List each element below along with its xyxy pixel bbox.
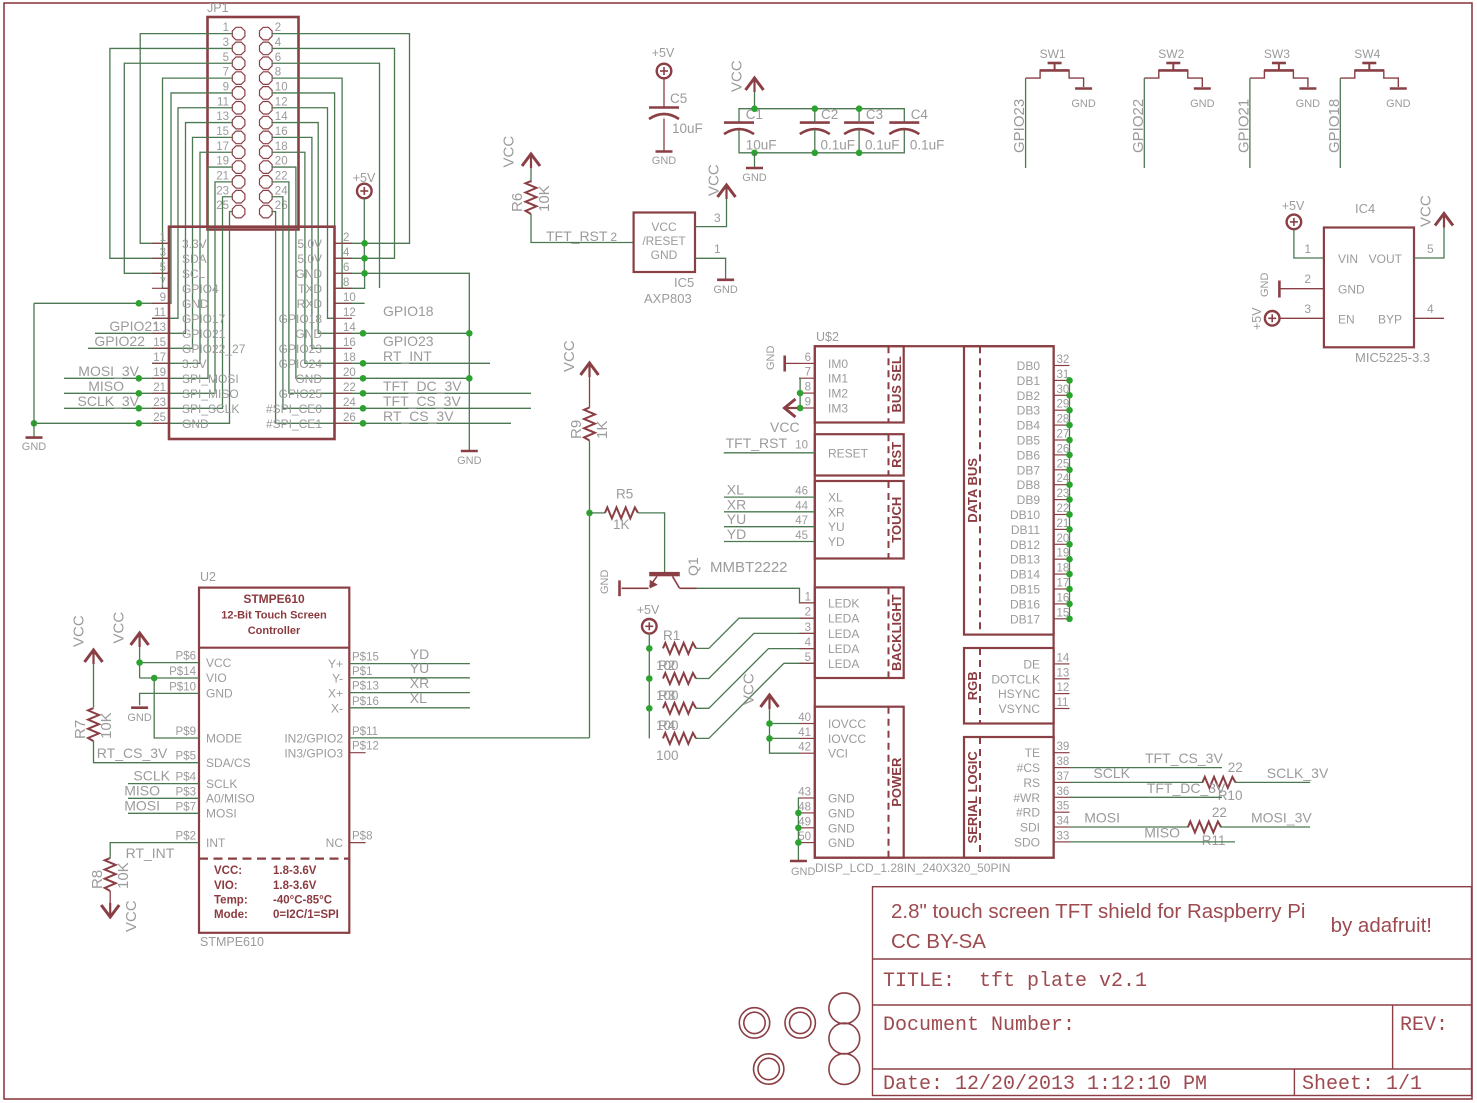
svg-text:MOSI: MOSI — [206, 807, 237, 821]
wire R9 to node and STMPE P$11 — [589, 441, 591, 738]
svg-text:IN3/GPIO3: IN3/GPIO3 — [284, 747, 343, 761]
fiducial F1 — [829, 993, 860, 1024]
svg-text:44: 44 — [795, 500, 808, 512]
svg-text:12: 12 — [1057, 682, 1070, 694]
svg-text:SW4: SW4 — [1354, 47, 1380, 61]
svg-text:1.8-3.6V: 1.8-3.6V — [273, 880, 317, 892]
wire TFT_CS_3V at pin38 — [1070, 767, 1223, 769]
svg-text:U2: U2 — [200, 570, 216, 584]
svg-text:R6: R6 — [509, 193, 526, 212]
svg-text:GND: GND — [651, 248, 678, 262]
svg-text:3.3V: 3.3V — [182, 357, 207, 371]
svg-text:MODE: MODE — [206, 732, 242, 746]
svg-text:CC BY-SA: CC BY-SA — [891, 930, 986, 953]
svg-text:2: 2 — [805, 607, 811, 619]
U$2 DATA_BUS block — [964, 346, 1054, 634]
svg-text:GPIO23: GPIO23 — [279, 342, 323, 356]
svg-text:SPI_MISO: SPI_MISO — [182, 387, 239, 401]
svg-text:20: 20 — [343, 367, 356, 379]
svg-text:4: 4 — [1427, 302, 1434, 316]
power +5V symbol at JP1 — [357, 184, 372, 199]
svg-text:P$14: P$14 — [169, 666, 196, 678]
svg-text:DB1: DB1 — [1017, 374, 1041, 388]
svg-text:IOVCC: IOVCC — [828, 732, 866, 746]
svg-text:5: 5 — [223, 52, 229, 64]
svg-text:STMPE610: STMPE610 — [200, 935, 264, 949]
capacitor C5 — [649, 106, 679, 109]
svg-text:MOSI: MOSI — [124, 797, 160, 813]
svg-text:VCC: VCC — [1418, 195, 1435, 227]
svg-text:1K: 1K — [613, 517, 630, 532]
svg-text:IM2: IM2 — [828, 387, 848, 401]
svg-text:SCLK: SCLK — [133, 768, 170, 784]
svg-text:LEDA: LEDA — [828, 642, 859, 656]
wire GND left vertical — [33, 303, 35, 437]
svg-text:#CS: #CS — [1017, 761, 1040, 775]
ground symbol at IC4 pin2 — [1278, 281, 1281, 298]
svg-text:VCC: VCC — [729, 60, 746, 92]
resistor R4 100 — [663, 733, 696, 744]
svg-text:RST: RST — [889, 442, 904, 468]
power VCC left arrow at IM pins — [784, 399, 798, 417]
wire JP1 pin 6 — [272, 63, 380, 288]
svg-text:DB10: DB10 — [1010, 508, 1040, 522]
svg-text:MOSI_3V: MOSI_3V — [78, 363, 139, 379]
svg-text:10K: 10K — [98, 712, 115, 739]
wire display GND pins — [797, 798, 800, 861]
svg-text:RESET: RESET — [828, 447, 869, 461]
wire C5 to GND — [663, 119, 665, 152]
svg-text:C3: C3 — [866, 107, 883, 122]
svg-text:IN2/GPIO2: IN2/GPIO2 — [284, 732, 343, 746]
svg-text:VCC: VCC — [740, 673, 757, 705]
wire GND to IM0 — [785, 362, 799, 364]
svg-text:#RD: #RD — [1016, 806, 1040, 820]
svg-text:YU: YU — [727, 511, 746, 527]
svg-text:VIO:: VIO: — [214, 880, 238, 892]
svg-text:Y+: Y+ — [328, 657, 343, 671]
svg-text:GPIO17: GPIO17 — [182, 312, 226, 326]
svg-text:DB8: DB8 — [1017, 478, 1041, 492]
wire JP1 pin 19 — [64, 167, 232, 378]
wire IC4 pin5 VOUT to VCC — [1414, 226, 1444, 258]
U$2 IM pin stubs and numbers — [799, 363, 815, 408]
svg-text:VCC: VCC — [206, 656, 232, 670]
wire +5V to pins 2 and 4 — [363, 198, 365, 273]
svg-text:VCC: VCC — [123, 900, 140, 932]
wire GPIO21 at SW3 — [1249, 78, 1251, 168]
power VCC down arrow below R8 — [101, 903, 119, 918]
svg-text:26: 26 — [275, 200, 288, 212]
svg-text:22: 22 — [1228, 760, 1243, 775]
svg-text:5.0V: 5.0V — [297, 252, 322, 266]
svg-text:VCC:: VCC: — [214, 865, 242, 877]
svg-text:VCC: VCC — [706, 164, 723, 196]
svg-text:GND: GND — [1190, 98, 1215, 110]
svg-text:-40°C-85°C: -40°C-85°C — [273, 895, 332, 907]
svg-text:DISP_LCD_1.28IN_240X320_50PIN: DISP_LCD_1.28IN_240X320_50PIN — [815, 861, 1010, 875]
svg-text:10K: 10K — [115, 862, 132, 889]
resistor R11 22 — [1188, 822, 1221, 833]
svg-text:19: 19 — [216, 156, 229, 168]
U2 P$12 stub — [349, 752, 365, 754]
svg-text:GND: GND — [206, 687, 233, 701]
svg-text:GND: GND — [599, 570, 611, 595]
svg-text:3: 3 — [223, 37, 229, 49]
svg-text:MIC5225-3.3: MIC5225-3.3 — [1355, 350, 1430, 365]
svg-text:GND: GND — [828, 836, 855, 850]
IC U2 STMPE610 box — [199, 588, 349, 933]
wire XL net at display — [724, 496, 815, 498]
svg-text:100: 100 — [656, 718, 679, 733]
svg-text:GPIO4: GPIO4 — [182, 282, 219, 296]
junction dot IM3 — [797, 405, 804, 412]
svg-text:IC5: IC5 — [674, 275, 694, 290]
svg-text:43: 43 — [798, 787, 811, 799]
svg-text:DB16: DB16 — [1010, 597, 1040, 611]
power VCC arrow at IC5 pin3 — [718, 184, 736, 199]
svg-text:GND: GND — [457, 455, 482, 467]
wire R2 to LEDA pin3 — [696, 633, 815, 678]
svg-text:10uF: 10uF — [746, 138, 777, 153]
svg-text:P$8: P$8 — [352, 831, 372, 843]
resistor R3 100 — [663, 703, 696, 714]
switch SW4 — [1340, 63, 1398, 87]
svg-text:GND: GND — [828, 806, 855, 820]
svg-text:GPIO23: GPIO23 — [383, 333, 434, 349]
wire R6 to IC5 pin2 TFT_RST — [531, 214, 634, 243]
svg-text:RT_INT: RT_INT — [126, 845, 175, 861]
wire P$10 to GND — [140, 693, 199, 705]
wire R10 to SCLK_3V — [1235, 781, 1310, 783]
svg-text:DOTCLK: DOTCLK — [991, 672, 1040, 686]
wire IC5 pin1 to GND — [695, 258, 726, 279]
wire +5V to IC4 pin1 — [1294, 229, 1324, 258]
svg-text:GND: GND — [765, 346, 777, 371]
svg-text:9: 9 — [223, 82, 229, 94]
ground symbol at Q1 emitter — [618, 580, 621, 596]
svg-text:22: 22 — [343, 382, 356, 394]
wire GPIO18 at SW4 — [1339, 78, 1341, 168]
svg-text:2: 2 — [1304, 272, 1311, 286]
svg-text:#SPI_CE1: #SPI_CE1 — [266, 417, 322, 431]
ground symbol at SW2 — [1194, 87, 1211, 90]
svg-text:DB14: DB14 — [1010, 568, 1040, 582]
svg-text:VCC: VCC — [501, 136, 518, 168]
svg-text:1: 1 — [160, 232, 166, 244]
junction dots data bus — [1066, 377, 1073, 384]
wire row8 stub net — [335, 273, 365, 288]
IC IC4 MIC5225-3.3 box — [1324, 228, 1414, 348]
wire YU net at display — [724, 526, 815, 528]
svg-text:Q1: Q1 — [685, 557, 701, 576]
wire capacitor top rail — [739, 109, 904, 123]
svg-text:19: 19 — [153, 367, 166, 379]
wire MISO net — [128, 797, 199, 799]
wire VCC to R6 — [530, 168, 532, 183]
svg-text:A0/MISO: A0/MISO — [206, 792, 255, 806]
svg-text:DB5: DB5 — [1017, 434, 1041, 448]
resistor R5 1K — [605, 507, 638, 518]
svg-text:26: 26 — [343, 412, 356, 424]
svg-text:13: 13 — [1057, 667, 1070, 679]
svg-text:GPIO22: GPIO22 — [1130, 99, 1147, 153]
svg-text:0.1uF: 0.1uF — [865, 138, 900, 153]
svg-text:SDI: SDI — [1020, 821, 1040, 835]
svg-text:GND: GND — [652, 155, 677, 167]
wire JP1 pin 15 — [88, 137, 232, 348]
wire R3 to LEDA pin4 — [696, 649, 815, 709]
svg-text:GPIO22_27: GPIO22_27 — [182, 342, 246, 356]
svg-text:3: 3 — [714, 211, 721, 225]
svg-text:P$4: P$4 — [176, 772, 197, 784]
svg-text:GND: GND — [295, 267, 322, 281]
wire VCC to IOVCC pins — [770, 709, 800, 753]
connector JP1 upper box — [208, 17, 299, 230]
wire IM1 IM2 IM3 tie — [797, 378, 800, 408]
svg-text:DB12: DB12 — [1010, 538, 1040, 552]
JP1 lower box pin stubs — [152, 243, 352, 423]
svg-text:42: 42 — [798, 742, 811, 754]
svg-text:R11: R11 — [1202, 833, 1226, 848]
wire VCC to R9 — [589, 377, 591, 408]
wire R8 to VCC down arrow — [109, 891, 111, 903]
ground symbol below IC5 — [717, 278, 734, 281]
U$2 data bus pins DB0-DB17 — [1054, 366, 1070, 619]
svg-text:GND: GND — [22, 441, 47, 453]
wire XR net at U2 — [349, 692, 470, 694]
ground symbol below display — [790, 860, 807, 863]
svg-text:22: 22 — [1212, 805, 1227, 820]
svg-text:GND: GND — [1259, 273, 1271, 298]
svg-text:DB13: DB13 — [1010, 553, 1040, 567]
svg-text:P$12: P$12 — [352, 741, 379, 753]
svg-text:GND: GND — [791, 866, 816, 878]
wire JP1 pin 16 — [272, 137, 335, 348]
svg-text:VIN: VIN — [1338, 252, 1358, 266]
svg-text:DB15: DB15 — [1010, 583, 1040, 597]
svg-text:X-: X- — [331, 702, 343, 716]
wire YD net at U2 — [349, 663, 470, 665]
svg-text:3: 3 — [805, 622, 811, 634]
svg-text:0.1uF: 0.1uF — [910, 138, 945, 153]
svg-text:DB17: DB17 — [1010, 612, 1040, 626]
power VCC arrow at IOVCC — [761, 694, 779, 709]
svg-text:HSYNC: HSYNC — [998, 687, 1040, 701]
svg-text:#SPI_CE0: #SPI_CE0 — [266, 402, 322, 416]
svg-text:LEDA: LEDA — [828, 657, 859, 671]
ground symbol right of JP1 — [461, 450, 478, 453]
svg-text:VCI: VCI — [828, 747, 848, 761]
svg-text:14: 14 — [1057, 652, 1070, 664]
junction dot R5 node — [586, 510, 593, 517]
svg-text:22: 22 — [275, 171, 288, 183]
wire JP1 pin 17 — [152, 152, 232, 363]
svg-text:LEDA: LEDA — [828, 627, 859, 641]
svg-text:P$5: P$5 — [176, 751, 196, 763]
svg-text:GND: GND — [828, 821, 855, 835]
svg-text:DE: DE — [1023, 657, 1040, 671]
connector JP1 pin octagons and numbers — [216, 22, 288, 218]
wire JP1 pin 25 — [34, 212, 232, 424]
svg-text:1.8-3.6V: 1.8-3.6V — [273, 865, 317, 877]
junction dot P$6 — [136, 659, 143, 666]
U$2 BACKLIGHT block — [815, 587, 904, 678]
U$2 TOUCH block — [815, 481, 904, 559]
svg-text:+5V: +5V — [1250, 307, 1264, 330]
transistor Q1 MMBT2222 — [622, 572, 697, 589]
svg-text:46: 46 — [795, 486, 808, 498]
svg-text:10K: 10K — [536, 185, 553, 212]
svg-text:40: 40 — [798, 712, 811, 724]
wire IC4 pin4 BYP — [1414, 317, 1444, 319]
wire JP1 pin 3 — [110, 48, 232, 258]
svg-text:11: 11 — [1057, 697, 1069, 709]
power VCC arrow at IC4 VOUT — [1435, 213, 1453, 228]
svg-text:DB4: DB4 — [1017, 419, 1041, 433]
svg-text:GND: GND — [1338, 283, 1365, 297]
svg-text:2.8" touch screen TFT shield f: 2.8" touch screen TFT shield for Raspber… — [891, 900, 1305, 923]
svg-text:STMPE610: STMPE610 — [243, 592, 305, 606]
svg-text:47: 47 — [795, 515, 808, 527]
svg-text:15: 15 — [216, 126, 229, 138]
svg-text:11: 11 — [217, 96, 229, 108]
svg-text:P$9: P$9 — [176, 726, 196, 738]
svg-text:12: 12 — [343, 307, 356, 319]
IC U$2 display outer box — [815, 346, 1054, 858]
svg-text:GPIO18: GPIO18 — [383, 303, 434, 319]
svg-text:GND: GND — [182, 417, 209, 431]
power +5V symbol at IC4 VIN — [1287, 215, 1302, 230]
wire +5V to C5 — [663, 78, 665, 107]
wire JP1 pin 21 — [64, 182, 232, 393]
ground symbol at IM0 — [783, 356, 786, 372]
wire JP1 pin 23 — [64, 197, 232, 409]
U$2 POWER block — [815, 707, 904, 858]
svg-text:10: 10 — [275, 82, 288, 94]
svg-text:RS: RS — [1023, 776, 1040, 790]
svg-text:TFT_RST: TFT_RST — [546, 228, 608, 244]
ground symbol below C1 — [746, 167, 763, 170]
JP1 lower box pin names — [182, 237, 322, 431]
svg-text:R9: R9 — [568, 420, 585, 439]
svg-text:DB11: DB11 — [1011, 523, 1040, 537]
wire JP1 pin 7 — [163, 78, 233, 288]
svg-text:37: 37 — [1057, 771, 1070, 783]
svg-text:by adafruit!: by adafruit! — [1331, 914, 1432, 937]
resistor R2 100 — [663, 673, 696, 684]
svg-text:GPIO18: GPIO18 — [1326, 99, 1343, 153]
wire VCC to P$6 and P$14 and P$9 — [139, 647, 141, 678]
svg-text:7: 7 — [160, 277, 166, 289]
svg-text:TXD: TXD — [298, 282, 322, 296]
svg-text:20: 20 — [275, 156, 288, 168]
svg-text:RGB: RGB — [965, 671, 980, 700]
wire P$2 INT to R8 — [110, 843, 199, 858]
mounting hole H1 — [739, 1008, 769, 1038]
svg-text:TOUCH: TOUCH — [889, 497, 904, 543]
wire MISO at pin33 — [1070, 841, 1236, 843]
svg-text:12: 12 — [275, 96, 288, 108]
wire JP1 pin 9 — [34, 93, 232, 303]
wire +5V rail down R1-R4 — [648, 634, 650, 739]
svg-text:SPI_MOSI: SPI_MOSI — [182, 372, 239, 386]
svg-text:25: 25 — [153, 412, 166, 424]
wire GPIO23 at SW1 — [1025, 78, 1027, 168]
capacitor C2 — [800, 121, 830, 124]
wire IC5 pin3 to VCC — [695, 198, 727, 227]
wire JP1 pin 20 — [272, 167, 469, 378]
wire R7 to RT_CS_3V row — [94, 741, 200, 763]
svg-text:DB0: DB0 — [1017, 359, 1041, 373]
svg-text:0=I2C/1=SPI: 0=I2C/1=SPI — [273, 909, 339, 921]
JP1 lower box pin numbers — [153, 232, 356, 424]
svg-text:10uF: 10uF — [672, 121, 703, 136]
junction dot IM2 — [797, 390, 804, 397]
ground symbol below C5 — [656, 150, 673, 153]
wire YD net at display — [724, 541, 815, 543]
svg-text:24: 24 — [343, 397, 356, 409]
wire data bus tie vertical — [1069, 380, 1071, 618]
svg-text:4: 4 — [275, 37, 282, 49]
svg-text:GND: GND — [1386, 98, 1411, 110]
svg-text:SCL: SCL — [182, 267, 206, 281]
wire JP1 pin 10 — [272, 93, 335, 303]
U$2 RGB pin stubs and labels — [1054, 664, 1070, 709]
svg-text:RT_CS_3V: RT_CS_3V — [97, 745, 168, 761]
mounting hole H3 — [754, 1054, 784, 1084]
svg-text:SDA: SDA — [182, 252, 207, 266]
svg-text:SCLK_3V: SCLK_3V — [78, 393, 140, 409]
svg-text:P$7: P$7 — [176, 801, 196, 813]
svg-text:P$13: P$13 — [352, 681, 379, 693]
svg-text:Document Number:: Document Number: — [883, 1014, 1075, 1037]
wire bottom rail to GND — [754, 153, 756, 168]
svg-text:8: 8 — [275, 67, 281, 79]
svg-text:1: 1 — [805, 591, 811, 603]
svg-text:IM0: IM0 — [828, 357, 848, 371]
svg-text:MMBT2222: MMBT2222 — [710, 559, 788, 576]
svg-text:TFT_DC_3V: TFT_DC_3V — [383, 378, 462, 394]
svg-text:VOUT: VOUT — [1369, 252, 1403, 266]
svg-text:38: 38 — [1057, 756, 1070, 768]
svg-text:100: 100 — [656, 658, 679, 673]
svg-text:GND: GND — [742, 172, 767, 184]
connector JP1 lower box — [169, 227, 335, 439]
svg-text:YD: YD — [727, 526, 746, 542]
svg-text:100: 100 — [656, 748, 679, 763]
wire GPIO22 at SW2 — [1143, 78, 1145, 168]
wire VCC to R7 — [93, 664, 95, 708]
svg-text:VCC: VCC — [71, 615, 88, 647]
svg-text:GPIO21: GPIO21 — [1236, 99, 1253, 153]
svg-text:15: 15 — [153, 337, 166, 349]
svg-text:VCC: VCC — [561, 340, 578, 372]
junction dots JP1 right — [361, 240, 368, 247]
svg-text:YU: YU — [410, 660, 429, 676]
svg-text:2: 2 — [343, 232, 349, 244]
svg-text:36: 36 — [1057, 786, 1070, 798]
svg-text:TFT_CS_3V: TFT_CS_3V — [383, 393, 461, 409]
svg-text:1K: 1K — [594, 421, 611, 439]
svg-text:Sheet: 1/1: Sheet: 1/1 — [1302, 1073, 1422, 1096]
svg-text:JP1: JP1 — [207, 1, 229, 15]
svg-text:6: 6 — [275, 52, 281, 64]
svg-text:12-Bit Touch Screen: 12-Bit Touch Screen — [221, 610, 327, 622]
svg-text:8: 8 — [805, 382, 811, 394]
svg-text:YU: YU — [828, 520, 845, 534]
junction dots capacitor bank — [751, 105, 758, 112]
